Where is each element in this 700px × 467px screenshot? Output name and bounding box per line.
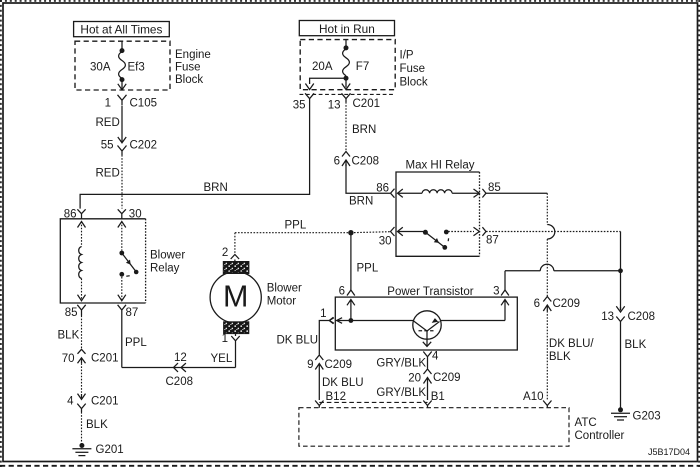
wire from 85 down to C209 pin 6 bbox=[486, 193, 555, 296]
connector C208 pin 12 bbox=[166, 352, 194, 388]
connector C208 pin 6 bbox=[334, 152, 379, 168]
svg-text:13: 13 bbox=[328, 99, 341, 111]
wire GRY/BLK pin4 to C209-20 bbox=[376, 358, 427, 370]
blower motor pin 2 bbox=[222, 233, 239, 262]
svg-text:13: 13 bbox=[601, 311, 614, 323]
svg-text:Fuse: Fuse bbox=[175, 62, 201, 74]
svg-text:A10: A10 bbox=[523, 391, 543, 403]
wire PPL horizontal bbox=[235, 220, 391, 233]
wire BLK C208-13 to G203 bbox=[621, 325, 647, 408]
power transistor pin 6 chevron bbox=[339, 286, 355, 298]
svg-text:ATC: ATC bbox=[575, 417, 597, 429]
header box Hot in Run bbox=[299, 21, 394, 37]
svg-text:C202: C202 bbox=[130, 140, 158, 152]
wire BLK 85 to C201-70 bbox=[58, 316, 82, 350]
fuse F7 20A bbox=[312, 40, 369, 90]
Max HI Relay box bbox=[396, 159, 480, 256]
I/P fuse block dashed box bbox=[300, 40, 395, 90]
fuse F7 branch wire to pin 35 bbox=[305, 78, 346, 89]
blower relay pin 86 bbox=[64, 208, 86, 220]
wire from 87 right and down to C208 pin 13 bbox=[486, 232, 621, 311]
node PPL junction bbox=[348, 230, 353, 235]
svg-text:BLK: BLK bbox=[58, 330, 80, 342]
blower relay coil bbox=[78, 222, 86, 301]
junction node 87/pin3 bbox=[618, 268, 623, 273]
connector C209 pin 6 bbox=[534, 297, 580, 312]
wire DK BLU to B12 bbox=[319, 370, 363, 401]
wire YEL motor pin1 to C208 bbox=[181, 344, 236, 368]
svg-text:DK BLU: DK BLU bbox=[322, 377, 364, 389]
svg-text:6: 6 bbox=[534, 298, 540, 310]
wire PPL down to power transistor pin 6 bbox=[351, 233, 379, 290]
svg-text:87: 87 bbox=[486, 235, 499, 247]
svg-text:70: 70 bbox=[62, 353, 75, 365]
Max HI relay switch bbox=[398, 227, 480, 250]
ground G201 bbox=[72, 443, 123, 456]
svg-text:C208: C208 bbox=[352, 156, 380, 168]
wire power transistor pin 3 to 87 wire bbox=[505, 264, 621, 290]
svg-text:30: 30 bbox=[129, 208, 142, 220]
svg-text:20A: 20A bbox=[312, 61, 333, 73]
label Engine Fuse Block bbox=[175, 49, 211, 86]
svg-text:9: 9 bbox=[307, 359, 313, 371]
svg-text:12: 12 bbox=[174, 352, 187, 364]
svg-text:C209: C209 bbox=[553, 298, 581, 310]
connector C208 pin 13 bbox=[601, 306, 655, 325]
blower relay pin 85 bbox=[65, 305, 86, 319]
power transistor pin 3 chevron bbox=[493, 286, 509, 298]
svg-text:BLK: BLK bbox=[549, 351, 571, 363]
svg-text:PPL: PPL bbox=[125, 337, 147, 349]
svg-text:30A: 30A bbox=[90, 62, 111, 74]
wire BRN pin 13 to C208 bbox=[346, 102, 376, 151]
svg-text:C209: C209 bbox=[433, 372, 461, 384]
svg-text:35: 35 bbox=[293, 99, 306, 111]
svg-text:C201: C201 bbox=[91, 353, 119, 365]
ATC pin A10 bbox=[523, 391, 551, 408]
blower relay pin 87 bbox=[118, 305, 139, 319]
svg-text:4: 4 bbox=[432, 351, 439, 363]
Max HI relay pin 87 bbox=[482, 227, 498, 246]
svg-text:PPL: PPL bbox=[357, 263, 379, 275]
svg-text:87: 87 bbox=[126, 307, 139, 319]
ATC B-row dashed connector line bbox=[319, 401, 427, 403]
svg-text:I/P: I/P bbox=[400, 50, 414, 62]
wire BRN C208 to Max HI relay 86 bbox=[346, 164, 390, 208]
connector C201 dashed line bbox=[300, 93, 395, 95]
blower motor pin 1 bbox=[222, 333, 240, 345]
blower motor bbox=[210, 262, 302, 334]
svg-text:C208: C208 bbox=[628, 311, 656, 323]
svg-text:BRN: BRN bbox=[204, 182, 228, 194]
svg-text:Hot in Run: Hot in Run bbox=[319, 22, 375, 36]
svg-text:6: 6 bbox=[334, 156, 340, 168]
connector C201 pin 4 bbox=[67, 394, 118, 412]
svg-text:Relay: Relay bbox=[150, 262, 180, 274]
wire GRY/BLK C209-20 to B1 bbox=[376, 384, 427, 401]
svg-text:Block: Block bbox=[175, 74, 203, 86]
connector C209 pin 9 bbox=[307, 355, 352, 371]
svg-text:YEL: YEL bbox=[211, 353, 233, 365]
svg-text:DK BLU: DK BLU bbox=[277, 335, 319, 347]
svg-text:G203: G203 bbox=[633, 411, 661, 423]
blower relay switch bbox=[118, 222, 139, 301]
connector C201 pin 13 bbox=[328, 93, 380, 111]
svg-text:4: 4 bbox=[67, 396, 74, 408]
svg-text:GRY/BLK: GRY/BLK bbox=[376, 387, 426, 399]
wire C201-70 to C201-4 bbox=[81, 363, 83, 394]
svg-text:86: 86 bbox=[376, 183, 389, 195]
transistor Q inside circle bbox=[413, 311, 441, 347]
svg-text:86: 86 bbox=[64, 208, 77, 220]
wire PPL 87 to C208-12 bbox=[122, 316, 174, 368]
svg-text:B1: B1 bbox=[431, 391, 445, 403]
Max HI relay pin 86 bbox=[376, 183, 394, 198]
connector C202 pin 55 bbox=[101, 137, 157, 156]
label I/P Fuse Block bbox=[400, 50, 428, 89]
svg-text:C209: C209 bbox=[325, 359, 353, 371]
svg-text:RED: RED bbox=[96, 117, 120, 129]
Max HI relay coil bbox=[398, 189, 480, 197]
power transistor pin 4 bbox=[423, 351, 439, 363]
svg-text:Power Transistor: Power Transistor bbox=[387, 286, 473, 298]
svg-text:C105: C105 bbox=[130, 98, 158, 110]
svg-text:DK BLU/: DK BLU/ bbox=[549, 338, 595, 350]
svg-text:30: 30 bbox=[379, 236, 392, 248]
svg-text:1: 1 bbox=[222, 333, 228, 345]
blower relay pin 30 bbox=[118, 208, 142, 220]
ATC Controller dashed box bbox=[299, 408, 625, 447]
Power Transistor box bbox=[335, 286, 517, 350]
connector C201 pin 35 bbox=[293, 93, 314, 111]
svg-text:M: M bbox=[223, 280, 248, 314]
svg-text:Blower: Blower bbox=[267, 283, 302, 295]
svg-text:GRY/BLK: GRY/BLK bbox=[376, 358, 426, 370]
svg-text:85: 85 bbox=[488, 182, 501, 194]
wire BLK C201-4 to G201 bbox=[82, 412, 109, 444]
svg-text:BRN: BRN bbox=[352, 124, 376, 136]
svg-text:Block: Block bbox=[400, 77, 428, 89]
power transistor internals bbox=[329, 300, 509, 324]
wire from pin 35 down and BRN to blower relay 86 bbox=[80, 102, 310, 209]
wire RED C105 to C202 bbox=[96, 106, 123, 137]
engine fuse block dashed box bbox=[75, 41, 170, 90]
connector C201 pin 70 bbox=[62, 349, 119, 365]
blower relay box bbox=[60, 219, 185, 303]
svg-text:Hot at All Times: Hot at All Times bbox=[80, 22, 162, 36]
header box Hot at All Times bbox=[74, 22, 170, 37]
svg-text:Fuse: Fuse bbox=[400, 63, 426, 75]
svg-text:F7: F7 bbox=[356, 61, 369, 73]
svg-text:2: 2 bbox=[222, 247, 228, 259]
ground G203 bbox=[611, 407, 661, 422]
svg-text:Ef3: Ef3 bbox=[128, 62, 145, 74]
svg-text:Engine: Engine bbox=[175, 49, 211, 61]
svg-text:C201: C201 bbox=[353, 98, 381, 110]
connector C105 pin 1 bbox=[105, 95, 157, 110]
svg-text:BRN: BRN bbox=[349, 196, 373, 208]
svg-text:Controller: Controller bbox=[575, 430, 625, 442]
Max HI relay pin 85 bbox=[482, 182, 500, 198]
wire RED C202 to blower relay 30 bbox=[96, 155, 123, 209]
ATC pin B1 bbox=[423, 391, 444, 408]
ATC pin B12 bbox=[315, 391, 346, 408]
svg-text:BLK: BLK bbox=[625, 339, 647, 351]
svg-text:Motor: Motor bbox=[267, 296, 297, 308]
power transistor pin 1 bbox=[277, 308, 334, 355]
svg-text:Blower: Blower bbox=[150, 249, 185, 261]
svg-text:B12: B12 bbox=[326, 391, 346, 403]
Max HI relay pin 30 bbox=[379, 227, 395, 248]
svg-text:PPL: PPL bbox=[285, 220, 307, 232]
svg-text:G201: G201 bbox=[96, 444, 124, 456]
connector C209 pin 20 bbox=[408, 369, 460, 385]
page border dotted outer bbox=[0, 0, 700, 2]
svg-text:85: 85 bbox=[65, 307, 78, 319]
svg-text:BLK: BLK bbox=[86, 419, 108, 431]
svg-text:J5B17D04: J5B17D04 bbox=[648, 447, 690, 457]
svg-text:RED: RED bbox=[96, 168, 120, 180]
svg-text:Max HI Relay: Max HI Relay bbox=[405, 159, 474, 171]
svg-text:1: 1 bbox=[105, 98, 111, 110]
svg-text:6: 6 bbox=[339, 286, 345, 298]
svg-text:C201: C201 bbox=[91, 395, 119, 407]
svg-text:20: 20 bbox=[408, 373, 421, 385]
svg-text:3: 3 bbox=[493, 286, 499, 298]
svg-text:C208: C208 bbox=[166, 376, 194, 388]
fuse Ef3 30A bbox=[90, 41, 145, 90]
svg-text:1: 1 bbox=[320, 308, 326, 320]
wire DK BLU/BLK C209-6 to A10 bbox=[547, 311, 594, 400]
svg-text:55: 55 bbox=[101, 140, 114, 152]
